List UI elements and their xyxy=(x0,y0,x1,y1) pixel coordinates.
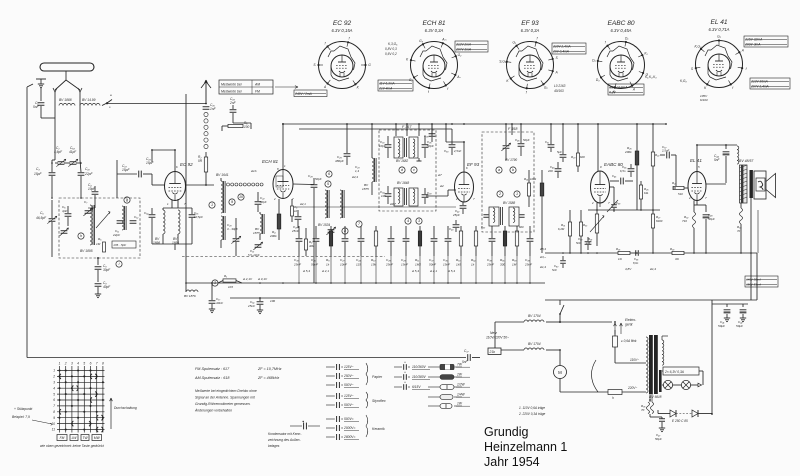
svg-text:1: 1 xyxy=(59,362,61,366)
svg-text:Δ 5,4: Δ 5,4 xyxy=(302,269,310,273)
junction dots audio return xyxy=(562,252,564,254)
capacitor C48 50uF xyxy=(705,205,707,212)
lower bus wire xyxy=(230,297,460,299)
speaker frame xyxy=(754,171,766,199)
svg-text:Δ 5,4: Δ 5,4 xyxy=(411,269,419,273)
svg-text:FM: FM xyxy=(255,89,260,93)
resistor R15 100k xyxy=(527,183,530,196)
svg-text:0R: 0R xyxy=(198,159,203,163)
rectifier output wire xyxy=(698,413,712,415)
ground symbol top left xyxy=(38,83,44,85)
rectifier wire xyxy=(657,410,659,414)
dashed chassis line xyxy=(182,256,385,258)
svg-text:C₃₅: C₃₅ xyxy=(443,258,448,262)
svg-text:AM: AM xyxy=(254,82,260,86)
svg-text:6.3V 0,45A: 6.3V 0,45A xyxy=(610,28,631,33)
svg-text:ZF = 468kHz: ZF = 468kHz xyxy=(257,376,279,380)
measurement box right of EL41 lower xyxy=(750,78,790,89)
measurement box left-under ECH81 xyxy=(378,80,413,91)
svg-text:C₃₀: C₃₀ xyxy=(294,258,299,262)
capacitor C55 6,5nF xyxy=(628,168,635,170)
coil BV1875b xyxy=(372,158,374,182)
resistor R27 xyxy=(651,214,654,228)
svg-text:2. 220V 0,3A träge: 2. 220V 0,3A träge xyxy=(518,412,545,416)
svg-text:1875: 1875 xyxy=(253,231,260,235)
svg-text:2W: 2W xyxy=(456,373,463,377)
svg-text:ZF = 10,7MHz: ZF = 10,7MHz xyxy=(257,367,282,371)
circled pins 4 and 3 xyxy=(405,218,411,224)
audio return wire xyxy=(545,252,618,254)
resistor R32 below EL41 xyxy=(693,212,696,228)
svg-text:Δ0,7: Δ0,7 xyxy=(389,202,396,206)
circled a and b xyxy=(496,167,502,173)
svg-text:1k: 1k xyxy=(326,263,330,267)
transformer secondary winding xyxy=(662,340,664,365)
svg-text:Jahr 1954: Jahr 1954 xyxy=(484,455,540,469)
electrolytic C41 50uF xyxy=(726,304,728,307)
circled pin 10 xyxy=(238,194,244,200)
EABC80 anode to grid coupling xyxy=(610,186,615,188)
svg-text:2000V=: 2000V= xyxy=(343,426,355,430)
trimmer in mixer xyxy=(328,229,335,231)
svg-text:C₂₈: C₂₈ xyxy=(386,258,391,262)
svg-text:600: 600 xyxy=(519,225,524,229)
svg-text:7k: 7k xyxy=(737,229,741,233)
wire into EF93 grid xyxy=(426,195,448,197)
capacitor C24 115 xyxy=(360,226,362,238)
measurement box right of EF93 xyxy=(552,43,586,54)
lamp wiring xyxy=(662,384,663,386)
svg-text:FM-Spulensatz : 617: FM-Spulensatz : 617 xyxy=(195,367,230,371)
svg-text:1k5: 1k5 xyxy=(456,263,461,267)
svg-text:Grundig-Röhrenvoltmeter gemess: Grundig-Röhrenvoltmeter gemessen. xyxy=(195,402,251,406)
F357 core xyxy=(404,138,406,157)
EL41 plate riser xyxy=(696,145,698,172)
svg-text:480pF: 480pF xyxy=(335,159,344,163)
boxed label C40 135-5pF xyxy=(112,241,136,248)
grid bias line xyxy=(296,206,456,208)
svg-text:+ Stützpunkt: + Stützpunkt xyxy=(14,407,33,411)
svg-text:220V~: 220V~ xyxy=(627,386,637,390)
measurement box right of ECH81 xyxy=(455,41,488,52)
svg-text:15nF: 15nF xyxy=(443,263,450,267)
svg-text:R₁₀: R₁₀ xyxy=(371,258,376,262)
svg-text:50μF: 50μF xyxy=(655,437,662,441)
resistor R33 xyxy=(579,222,582,236)
svg-text:EL 41: EL 41 xyxy=(690,158,702,163)
capacitor C53 5nF xyxy=(585,241,592,243)
svg-text:C₂₉: C₂₉ xyxy=(401,258,406,262)
resistor R8 1k xyxy=(330,226,332,231)
svg-text:1: 1 xyxy=(516,192,518,196)
mains switch xyxy=(559,314,561,322)
IF transformer F357 dashed box xyxy=(379,130,436,211)
svg-text:15nF: 15nF xyxy=(401,263,408,267)
svg-text:200k: 200k xyxy=(624,150,632,154)
svg-text:C₁₄: C₁₄ xyxy=(144,211,149,215)
svg-text:C₂₅: C₂₅ xyxy=(311,258,316,262)
svg-text:2× 6,3V 0,3A: 2× 6,3V 0,3A xyxy=(664,370,684,374)
svg-text:6/163: 6/163 xyxy=(700,98,708,102)
capacitor C25 50nF xyxy=(315,226,317,238)
capacitor C37 on mains bus xyxy=(467,354,469,361)
extra junction dots xyxy=(205,103,207,105)
capacitor C14b xyxy=(149,214,156,216)
svg-text:50pF: 50pF xyxy=(260,200,267,204)
svg-text:2,5nF: 2,5nF xyxy=(453,149,462,153)
capacitor C28 50pF xyxy=(311,184,318,186)
output transformer BV48/57 winding lead xyxy=(737,146,739,164)
svg-text:2: 2 xyxy=(498,192,501,196)
svg-text:1,4: 1,4 xyxy=(355,169,359,173)
svg-text:8: 8 xyxy=(53,410,55,414)
svg-text:0,8V 0,3: 0,8V 0,3 xyxy=(385,47,397,51)
svg-text:3: 3 xyxy=(71,362,73,366)
svg-text:22pF: 22pF xyxy=(112,233,120,237)
selenium diode 1 xyxy=(670,410,676,417)
capacitor C9 40pF xyxy=(95,283,102,285)
svg-text:C₃₉: C₃₉ xyxy=(525,258,530,262)
wire from tuning box down xyxy=(97,258,99,265)
svg-text:BV 1641: BV 1641 xyxy=(216,173,229,177)
svg-text:500V~: 500V~ xyxy=(344,383,354,387)
svg-text:Signal an der Antenne. Spannun: Signal an der Antenne. Spannungen mit xyxy=(195,396,256,400)
tuning gang arrow xyxy=(96,212,110,228)
resistor R9 40k xyxy=(304,239,307,250)
tube socket diagram EABC 80 xyxy=(592,20,648,94)
coil BV1876 xyxy=(186,290,198,292)
svg-text:Netz: Netz xyxy=(490,331,497,335)
svg-text:BV 14.99: BV 14.99 xyxy=(82,98,96,102)
extra trimmer left column xyxy=(85,210,92,212)
svg-text:25nF: 25nF xyxy=(524,263,532,267)
ECH81 plate riser xyxy=(282,124,284,170)
svg-text:2: 2 xyxy=(52,375,55,379)
capacitor C40 xyxy=(453,224,460,226)
svg-text:110V~: 110V~ xyxy=(630,358,639,362)
svg-text:belages: belages xyxy=(268,444,280,448)
svg-text:Heinzelmann 1: Heinzelmann 1 xyxy=(484,440,567,454)
svg-text:21b: 21b xyxy=(489,350,496,354)
svg-text:Δ5,4: Δ5,4 xyxy=(539,247,546,251)
capacitor C58 xyxy=(611,204,617,206)
coil BV1895b xyxy=(178,210,180,234)
svg-text:2: 2 xyxy=(64,362,67,366)
vertical feed to PSU xyxy=(711,300,713,414)
svg-text:G: G xyxy=(368,63,371,67)
resistor R18 1M xyxy=(516,226,518,231)
svg-text:2: 2 xyxy=(455,197,458,201)
svg-text:A: A xyxy=(323,85,326,89)
capacitor C14 25nF to ground xyxy=(259,298,261,301)
svg-text:4: 4 xyxy=(77,362,79,366)
svg-text:K,G₃: K,G₃ xyxy=(694,45,702,49)
junction dots on AVC bus xyxy=(185,282,187,284)
resistor R13 1k5 xyxy=(460,226,462,231)
svg-text:K₁,K₂,K₃: K₁,K₂,K₃ xyxy=(645,75,657,79)
lower right bus xyxy=(545,299,757,301)
svg-text:E 250 C 85: E 250 C 85 xyxy=(672,419,688,423)
svg-text:3…30pF: 3…30pF xyxy=(227,227,238,231)
resistor R4 200k xyxy=(277,214,281,229)
capacitor C8 30pF xyxy=(95,266,102,268)
svg-text:500V~: 500V~ xyxy=(344,403,354,407)
motor M xyxy=(554,366,567,379)
capacitor C15 xyxy=(189,214,196,216)
circled 5 xyxy=(325,181,331,187)
svg-text:C₁₀: C₁₀ xyxy=(85,167,90,171)
svg-text:c: c xyxy=(413,168,415,172)
wire antenna lead right xyxy=(79,104,81,160)
svg-text:a: a xyxy=(110,93,112,97)
resistor R26 1M xyxy=(639,185,642,199)
svg-text:5: 5 xyxy=(83,362,85,366)
svg-text:115: 115 xyxy=(356,263,361,267)
resistor R28 3ohm xyxy=(672,251,684,254)
svg-text:50μF: 50μF xyxy=(718,324,725,328)
svg-text:BV 1704: BV 1704 xyxy=(528,342,541,346)
svg-text:10nF: 10nF xyxy=(340,263,347,267)
oscillator coil BV1875 xyxy=(260,214,262,234)
svg-text:11: 11 xyxy=(52,428,56,432)
svg-text:125V~: 125V~ xyxy=(344,365,354,369)
coil BV1898 xyxy=(163,210,165,234)
svg-text:Styroflex: Styroflex xyxy=(372,399,386,403)
circled pin 1 xyxy=(209,202,215,208)
B+ feed line top xyxy=(712,303,748,305)
trimmer C13b xyxy=(255,244,262,246)
svg-text:510: 510 xyxy=(678,192,683,196)
svg-text:1875: 1875 xyxy=(362,187,369,191)
svg-text:100: 100 xyxy=(270,299,275,303)
AVC bus wire xyxy=(186,282,545,284)
svg-text:0,6V 0,2: 0,6V 0,2 xyxy=(385,52,397,56)
svg-text:BV 1895: BV 1895 xyxy=(80,249,93,253)
svg-text:EABC 80: EABC 80 xyxy=(607,20,634,27)
svg-text:5nF: 5nF xyxy=(552,268,557,272)
svg-text:6.3V 0,3A: 6.3V 0,3A xyxy=(425,28,444,33)
svg-text:Δ 5,4: Δ 5,4 xyxy=(447,269,455,273)
grid stopper R21 xyxy=(673,186,684,189)
resistor R6 100 xyxy=(228,124,243,127)
capacitor C44 5nF xyxy=(725,145,727,149)
svg-text:7: 7 xyxy=(53,404,55,408)
svg-text:F 358: F 358 xyxy=(508,127,518,131)
svg-text:1nF: 1nF xyxy=(210,107,217,111)
svg-text:100k: 100k xyxy=(530,177,537,181)
junction dots on B+ rail xyxy=(282,123,284,125)
svg-text:EF 93: EF 93 xyxy=(521,20,539,27)
svg-text:D₁: D₁ xyxy=(625,36,628,40)
svg-text:50nF: 50nF xyxy=(311,263,318,267)
wire right of ECH81 xyxy=(293,183,314,186)
svg-text:Δ2,1: Δ2,1 xyxy=(299,202,306,206)
svg-text:25nF: 25nF xyxy=(486,263,494,267)
svg-text:50pF: 50pF xyxy=(315,177,322,181)
mains plug symbol xyxy=(488,348,501,355)
measurement box Messwerte xyxy=(219,80,273,94)
svg-text:10pF: 10pF xyxy=(379,144,386,148)
antenna dipole xyxy=(40,63,94,71)
measurement box output bottom xyxy=(745,276,778,287)
svg-text:5nF: 5nF xyxy=(33,105,40,109)
svg-text:100: 100 xyxy=(244,125,250,129)
F357 top feeds xyxy=(395,124,397,136)
dial lamp 2 xyxy=(681,380,690,389)
svg-text:1: 1 xyxy=(211,203,213,207)
svg-text:15pF: 15pF xyxy=(34,172,42,176)
svg-text:2nF: 2nF xyxy=(229,101,237,105)
svg-text:Kondensator mit Kenn-: Kondensator mit Kenn- xyxy=(268,432,302,436)
svg-text:25pF: 25pF xyxy=(452,213,460,217)
svg-text:8,6n: 8,6n xyxy=(633,261,639,265)
cathode line EL41 xyxy=(696,201,698,206)
F358 trimmer top xyxy=(503,145,510,147)
svg-text:BV 1534: BV 1534 xyxy=(318,223,330,227)
wire to outlet xyxy=(560,321,612,323)
capacitor C37 50nF xyxy=(433,226,435,238)
svg-text:15pF: 15pF xyxy=(146,161,154,165)
resistor R3 1k xyxy=(291,206,294,216)
selenium diode 2 xyxy=(692,410,698,417)
mains wires to chokes xyxy=(501,349,524,351)
svg-text:22pF: 22pF xyxy=(84,172,93,176)
outer foil capacitor note symbol xyxy=(290,425,302,427)
F358 top feed xyxy=(511,124,513,135)
resistor R31 xyxy=(568,222,571,236)
resistor R2 0R xyxy=(204,157,207,172)
capacitor C57 2,5nF xyxy=(666,152,668,159)
svg-text:8: 8 xyxy=(102,362,104,366)
svg-text:110V/220V 50~: 110V/220V 50~ xyxy=(486,336,509,340)
capacitor C26 25nF xyxy=(295,216,302,218)
svg-text:EC 92: EC 92 xyxy=(180,162,193,167)
fuse 0,6A flink xyxy=(613,336,618,347)
svg-text:7: 7 xyxy=(96,362,98,366)
svg-text:600: 600 xyxy=(580,155,585,159)
resistor R10 15k xyxy=(375,226,377,231)
svg-text:500V=: 500V= xyxy=(344,417,354,421)
variable capacitor left section xyxy=(61,230,68,232)
phase arc xyxy=(591,360,598,392)
capacitor C29 15nF xyxy=(405,226,407,238)
svg-text:Beispiel: 7,9: Beispiel: 7,9 xyxy=(12,415,30,419)
F358 lower winding pair xyxy=(489,207,499,226)
electrolytic legend column xyxy=(394,366,402,368)
svg-text:h: h xyxy=(612,396,614,400)
svg-text:25nF: 25nF xyxy=(247,304,255,308)
svg-text:BV 1682: BV 1682 xyxy=(396,159,408,163)
svg-text:BV 48/57: BV 48/57 xyxy=(739,159,754,163)
svg-text:4: 4 xyxy=(407,219,409,223)
svg-text:3: 3 xyxy=(53,381,55,385)
svg-text:103: 103 xyxy=(228,285,233,289)
svg-text:+: + xyxy=(404,361,406,365)
coil BV1846 xyxy=(122,206,124,230)
svg-text:8200: 8200 xyxy=(656,219,663,223)
svg-text:9: 9 xyxy=(53,416,55,420)
svg-text:K₁: K₁ xyxy=(644,52,647,56)
svg-text:110/360V: 110/360V xyxy=(412,365,427,369)
F358 capacitor C46 50pF xyxy=(518,143,525,145)
svg-text:R₁₆: R₁₆ xyxy=(500,258,505,262)
svg-text:A: A xyxy=(632,87,635,91)
svg-text:25nF: 25nF xyxy=(385,263,393,267)
svg-text:BV 1704: BV 1704 xyxy=(528,314,541,318)
svg-text:250V~: 250V~ xyxy=(343,374,354,378)
svg-text:50μF: 50μF xyxy=(708,217,715,221)
svg-text:Δ2,4: Δ2,4 xyxy=(351,175,358,179)
svg-text:6.3V 0,71A: 6.3V 0,71A xyxy=(708,27,729,32)
bottom long bus wire xyxy=(27,357,465,359)
svg-text:C₂₄: C₂₄ xyxy=(356,258,361,262)
svg-text:AM-Spulensatz : 618: AM-Spulensatz : 618 xyxy=(194,376,230,380)
svg-text:4: 4 xyxy=(53,386,55,390)
svg-text:EL 41: EL 41 xyxy=(710,19,727,26)
antenna stem xyxy=(65,71,67,80)
resistor R20 600 xyxy=(576,153,579,166)
B+ second rail xyxy=(299,128,452,130)
svg-text:Δ2: Δ2 xyxy=(439,184,444,188)
resistor R16 300 xyxy=(504,226,506,231)
svg-text:4,8V: 4,8V xyxy=(625,267,632,271)
EF93 plate riser xyxy=(463,142,465,172)
transformer core BV66/8 xyxy=(649,335,653,394)
capacitor C27 10nF xyxy=(344,226,346,238)
svg-text:BV 1888: BV 1888 xyxy=(59,98,72,102)
wire jacks to trimmer row xyxy=(94,200,96,208)
circled 6 xyxy=(326,171,332,177)
capacitor C1 5nF xyxy=(38,102,45,104)
svg-text:4,6pF: 4,6pF xyxy=(54,150,63,154)
resistor R25 200k xyxy=(635,151,639,165)
svg-text:C₄₀: C₄₀ xyxy=(449,227,454,231)
capacitor voltage legend Styroflex xyxy=(326,395,335,397)
svg-text:EF 93: EF 93 xyxy=(467,162,480,167)
svg-text:R₂₁: R₂₁ xyxy=(672,181,676,185)
output transformer core xyxy=(740,165,748,203)
svg-text:200: 200 xyxy=(547,169,553,173)
svg-text:1. 110V 0,6A träge: 1. 110V 0,6A träge xyxy=(519,406,545,410)
F357 primary capacitor C33 xyxy=(385,144,392,146)
svg-text:BV 66/8: BV 66/8 xyxy=(649,395,661,399)
transformer bottom lead with resistor xyxy=(740,203,742,208)
resistor R22 xyxy=(651,152,654,166)
svg-text:a: a xyxy=(498,168,500,172)
svg-text:6: 6 xyxy=(90,362,92,366)
circled letter h xyxy=(78,233,84,239)
speaker magnet bar xyxy=(750,170,753,198)
capacitor C30 25nF xyxy=(298,226,300,238)
capacitor C17 40nF to ground xyxy=(211,283,213,300)
F357 lower section capacitor C34 xyxy=(385,193,392,195)
svg-text:1M: 1M xyxy=(96,242,101,246)
oscillator coil BV1895 with core xyxy=(90,205,92,245)
svg-text:BV 1790: BV 1790 xyxy=(505,158,517,162)
primary tap 110V xyxy=(615,362,646,364)
svg-text:Meßwerte bei eingedichtem Dreh: Meßwerte bei eingedichtem Drehko ohne xyxy=(195,389,257,393)
circled 8 xyxy=(342,228,348,234)
B+ top rail xyxy=(283,123,666,125)
svg-text:5: 5 xyxy=(53,392,55,396)
svg-text:6/15V: 6/15V xyxy=(412,385,421,389)
svg-text:Δ1,4: Δ1,4 xyxy=(649,267,656,271)
svg-text:+: + xyxy=(404,371,406,375)
wire grid line to ECH81 xyxy=(186,184,214,186)
svg-text:6: 6 xyxy=(53,398,55,402)
svg-text:M: M xyxy=(558,370,562,375)
svg-text:Änderungen vorbehalten: Änderungen vorbehalten xyxy=(194,409,232,413)
